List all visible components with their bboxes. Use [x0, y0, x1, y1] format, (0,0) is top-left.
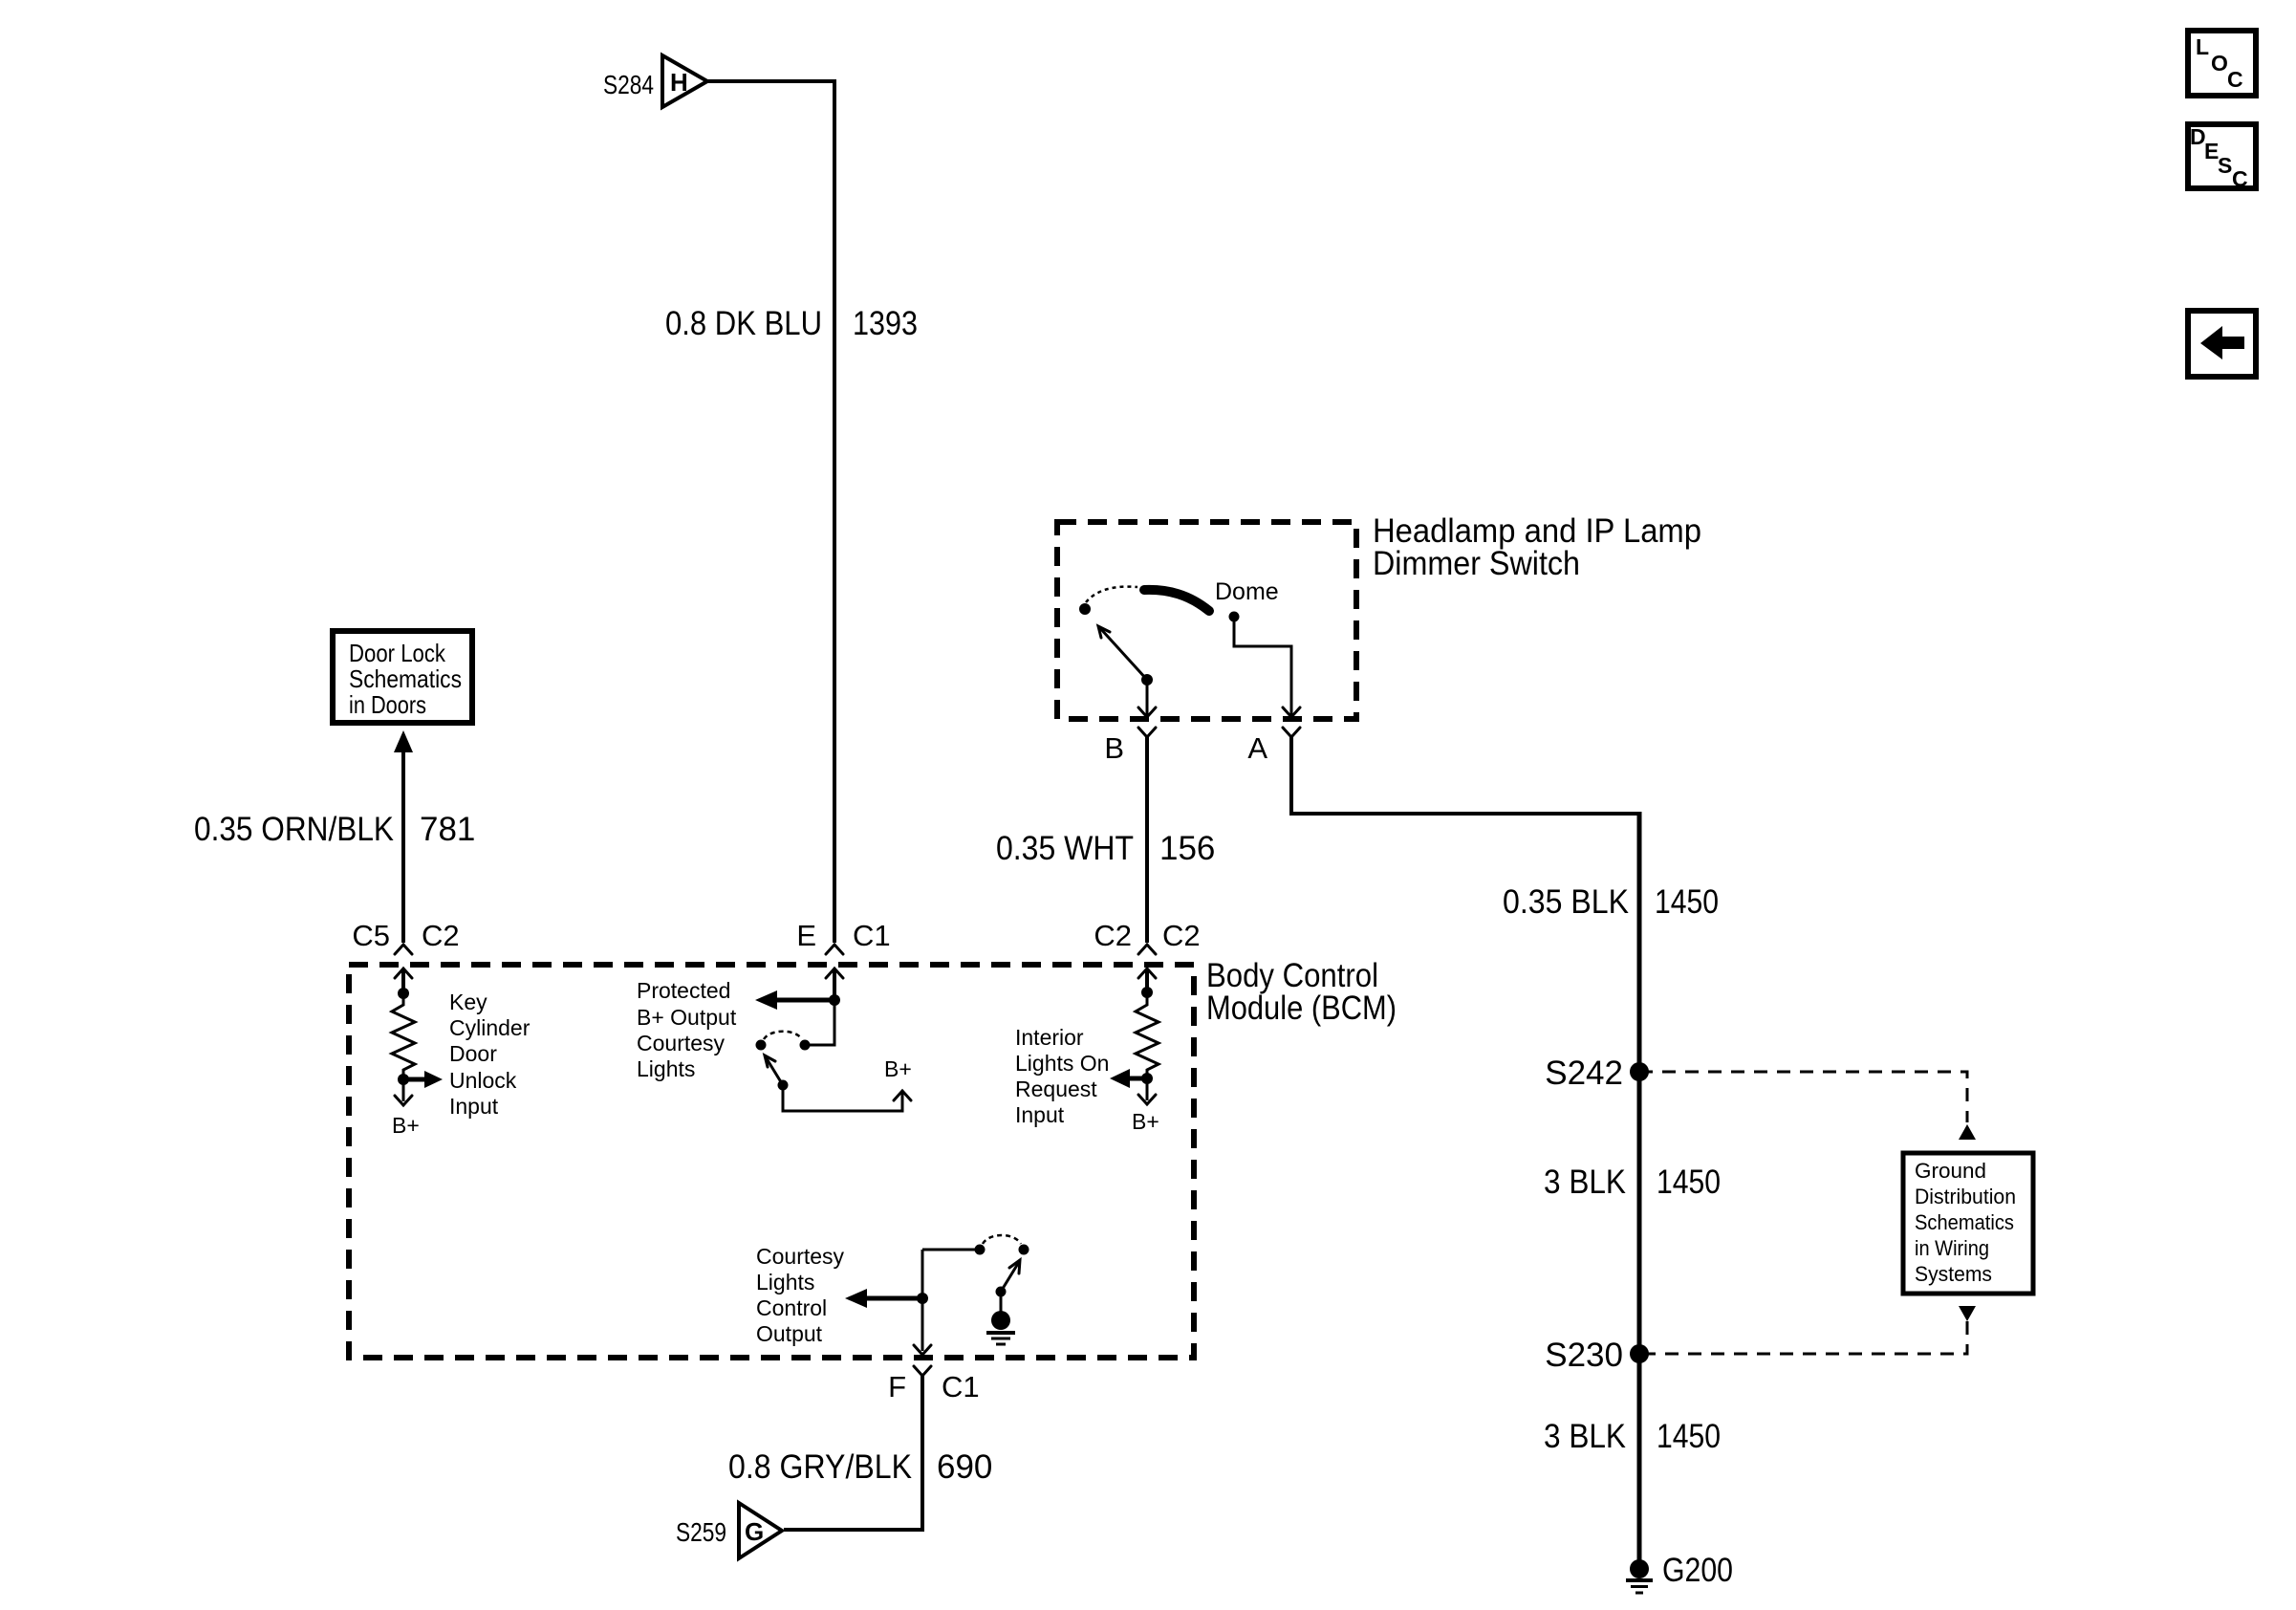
wire 0.35 ORN/BLK 781 from BCM pin C5 to door lock [401, 751, 405, 943]
resistor interior lights on request [1136, 992, 1159, 1078]
legend box back-arrow [2188, 311, 2256, 377]
svg-text:F: F [888, 1370, 906, 1403]
courtesy lights control output arrow [866, 1296, 922, 1301]
legend box DESC [2188, 124, 2256, 188]
svg-text:C1: C1 [942, 1370, 980, 1403]
chevron into BCM (C2) [395, 968, 412, 978]
Body Control Module (BCM) box [349, 965, 1194, 1358]
dashed throw arc [764, 1032, 802, 1039]
svg-text:S230: S230 [1545, 1337, 1623, 1374]
dashed throw arc [983, 1235, 1021, 1244]
connector fork A below box [1283, 728, 1300, 737]
svg-text:C: C [2227, 67, 2243, 92]
svg-text:Protected: Protected [637, 978, 730, 1003]
switch contact dots [975, 1245, 986, 1255]
svg-text:1393: 1393 [853, 305, 918, 342]
svg-text:G200: G200 [1662, 1552, 1733, 1589]
svg-text:Control: Control [756, 1295, 827, 1320]
Door Lock Schematics in Doors reference box [333, 631, 472, 723]
svg-text:Lights: Lights [756, 1270, 814, 1295]
svg-text:S284: S284 [603, 70, 654, 99]
svg-text:B+: B+ [884, 1056, 912, 1081]
splice symbol S259 (triangle G) [739, 1503, 782, 1558]
wire 0.8 DK BLU 1393 from S284 to BCM pin E [707, 81, 834, 943]
dashed wire ground distribution to S230 [1639, 1321, 1967, 1354]
wire 0.35 BLK 1450 from A to ground trunk [1291, 737, 1637, 814]
splice symbol S284 (triangle H) [662, 55, 707, 107]
svg-text:Courtesy: Courtesy [756, 1244, 845, 1269]
chevron into BCM (E) [826, 968, 843, 978]
svg-text:E: E [796, 919, 816, 952]
junction dot [1141, 987, 1153, 998]
dome contact dot [1229, 612, 1240, 622]
svg-text:C: C [2232, 166, 2248, 191]
wire pivot to internal ground [1000, 1292, 1003, 1312]
resistor key cylinder input [392, 993, 415, 1079]
wire junction to switch contact [810, 1000, 834, 1045]
svg-text:0.35 ORN/BLK: 0.35 ORN/BLK [194, 811, 394, 848]
svg-text:L: L [2196, 34, 2209, 59]
wire pivot to B+ chevron [783, 1085, 902, 1111]
svg-text:0.8 GRY/BLK: 0.8 GRY/BLK [728, 1448, 912, 1486]
svg-text:H: H [670, 68, 688, 97]
connector fork B below box [1138, 728, 1156, 737]
svg-text:Courtesy: Courtesy [637, 1031, 726, 1055]
switch pivot dot [778, 1080, 789, 1091]
svg-text:S: S [2218, 153, 2232, 178]
arrowhead out of ground distribution box [1959, 1306, 1976, 1321]
connector C2|C2 at BCM top (dimmer branch) [1138, 945, 1156, 954]
svg-text:B+ Output: B+ Output [637, 1005, 737, 1030]
wire 0.35 WHT 156 from B to BCM pin C2 [1145, 737, 1149, 943]
svg-text:3 BLK: 3 BLK [1544, 1164, 1626, 1201]
svg-text:156: 156 [1159, 830, 1215, 867]
arrowhead into ground distribution box [1959, 1124, 1976, 1140]
svg-text:Systems: Systems [1915, 1262, 1992, 1286]
chevron into BCM (C2 right) [1138, 968, 1156, 978]
svg-text:Module (BCM): Module (BCM) [1206, 990, 1397, 1027]
junction dot [398, 1074, 409, 1085]
svg-text:Key: Key [449, 990, 487, 1014]
legend box LOC [2188, 31, 2256, 96]
svg-text:Distribution: Distribution [1915, 1185, 2016, 1208]
chevron out of BCM at F [914, 1345, 931, 1355]
svg-text:Lights: Lights [637, 1056, 695, 1081]
svg-text:Interior: Interior [1015, 1025, 1084, 1050]
svg-text:C2: C2 [422, 919, 460, 952]
junction dot [1141, 1073, 1153, 1084]
chevron to B+ (request pull-up) [1146, 1078, 1149, 1100]
ground G200 [1630, 1559, 1649, 1578]
courtesy output switch: feed wire [922, 1249, 975, 1251]
chevron to B+ (key cylinder pull-up) [402, 1079, 405, 1101]
svg-text:Unlock: Unlock [449, 1068, 517, 1093]
splice S242 [1630, 1062, 1649, 1081]
svg-text:3 BLK: 3 BLK [1544, 1418, 1626, 1455]
svg-text:690: 690 [937, 1448, 992, 1486]
svg-text:1450: 1450 [1657, 1418, 1721, 1455]
ground trunk wire to G200 [1637, 812, 1642, 1569]
svg-text:Schematics: Schematics [349, 664, 462, 693]
svg-text:Request: Request [1015, 1077, 1097, 1101]
svg-text:S259: S259 [676, 1517, 726, 1547]
svg-text:in Wiring: in Wiring [1915, 1236, 1989, 1260]
junction dot [829, 994, 840, 1006]
chevron out of box at A [1283, 707, 1300, 717]
svg-text:B+: B+ [392, 1113, 420, 1138]
switch arm with arrowhead [765, 1055, 783, 1085]
arrow to interior lights request input [1129, 1077, 1147, 1081]
Headlamp and IP Lamp Dimmer Switch box [1057, 522, 1356, 719]
svg-text:G: G [745, 1517, 764, 1546]
Ground Distribution Schematics in Wiring Systems box [1903, 1153, 2033, 1294]
svg-text:1450: 1450 [1655, 883, 1719, 921]
svg-text:0.8 DK BLU: 0.8 DK BLU [665, 305, 822, 342]
svg-text:0.35 BLK: 0.35 BLK [1503, 883, 1629, 921]
connector C5|C2 at BCM top (door lock branch) [395, 945, 412, 954]
svg-text:C1: C1 [853, 919, 891, 952]
svg-text:781: 781 [420, 811, 475, 848]
svg-text:Ground: Ground [1915, 1159, 1986, 1183]
junction dot [917, 1293, 928, 1304]
internal ground symbol [991, 1311, 1010, 1330]
wire 0.8 GRY/BLK 690 from pin F to S259 [784, 1376, 922, 1530]
svg-text:A: A [1247, 731, 1267, 765]
svg-text:Output: Output [756, 1321, 823, 1346]
dimmer rotary contact (left terminal) [1079, 603, 1091, 615]
svg-text:Door Lock: Door Lock [349, 639, 446, 667]
wire pivot to pin B [1146, 680, 1149, 715]
svg-text:Dome: Dome [1215, 578, 1279, 605]
protected B+ output arrow [776, 998, 834, 1003]
arrowhead into door lock box [394, 730, 413, 752]
switch fixed contact dots [800, 1040, 811, 1051]
svg-text:C5: C5 [352, 919, 390, 952]
svg-text:C2: C2 [1094, 919, 1132, 952]
wire courtesy switch to pin F [921, 1250, 924, 1351]
svg-text:S242: S242 [1545, 1055, 1623, 1092]
svg-text:1450: 1450 [1657, 1164, 1721, 1201]
thick wiper track arc [1144, 590, 1209, 611]
connector E|C1 at BCM top [826, 945, 843, 954]
svg-text:Input: Input [1015, 1102, 1065, 1127]
svg-text:Lights On: Lights On [1015, 1051, 1109, 1076]
switch arm with arrowhead [1001, 1262, 1019, 1292]
dashed wire S242 to ground distribution [1639, 1072, 1967, 1122]
chevron out of box at B [1138, 707, 1156, 717]
svg-text:Schematics: Schematics [1915, 1210, 2014, 1234]
svg-text:B+: B+ [1132, 1109, 1159, 1134]
wiper pivot dot [1141, 674, 1153, 685]
switch pivot dot [996, 1287, 1007, 1297]
svg-text:Door: Door [449, 1041, 497, 1066]
connector fork F|C1 below BCM [914, 1366, 931, 1376]
svg-text:Input: Input [449, 1094, 499, 1119]
dimmer wiper arm with arrowhead [1099, 627, 1147, 680]
svg-text:B: B [1104, 731, 1124, 765]
splice S230 [1630, 1344, 1649, 1363]
dashed travel arc [1086, 587, 1137, 602]
arrow to key cylinder input [403, 1077, 426, 1082]
svg-text:O: O [2211, 51, 2228, 76]
junction dot [398, 988, 409, 999]
svg-text:Cylinder: Cylinder [449, 1015, 531, 1040]
wire dome dot to pin A [1234, 617, 1291, 715]
svg-text:0.35 WHT: 0.35 WHT [996, 830, 1134, 867]
svg-text:in Doors: in Doors [349, 690, 426, 719]
svg-text:C2: C2 [1162, 919, 1201, 952]
svg-text:Dimmer Switch: Dimmer Switch [1373, 545, 1580, 582]
